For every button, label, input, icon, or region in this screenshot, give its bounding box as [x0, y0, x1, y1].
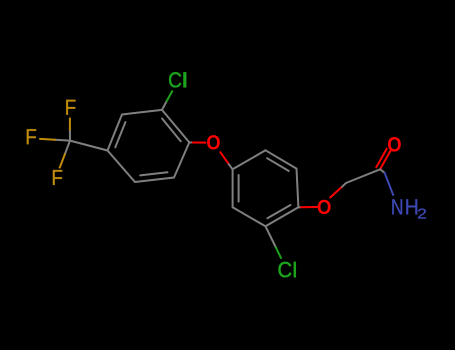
bond C-O ether1 gray half [189, 141, 192, 143]
bond O ether2 to CH2 red half [330, 187, 342, 198]
bond O ether1 to ring2 red half [220, 152, 229, 164]
double bond inner line X6-X1 [238, 175, 240, 202]
label O (ether 1) [207, 135, 220, 149]
label F (left fluorine) [27, 129, 36, 144]
bond C-O ether2 red half [301, 206, 317, 208]
label Cl (ring2 chlorine) [278, 262, 291, 277]
wire V4-V5 [108, 151, 136, 183]
bond ring1 to CF3 carbon [70, 141, 108, 151]
wire V6-V1 [122, 110, 162, 115]
bond C-O ether1 red half [193, 142, 206, 144]
carbonyl C=O double bond (red) [380, 151, 390, 170]
bond C-F top gray half [69, 130, 71, 141]
wire V3-V4 [135, 178, 174, 183]
label F (top fluorine) [66, 100, 75, 115]
bond C-F left gray half [55, 139, 70, 142]
label F (bottom fluorine) [53, 170, 62, 185]
wire V2-V3 [174, 142, 189, 177]
wire X4-X5 [266, 207, 299, 226]
bond C-F bottom gray half [65, 141, 70, 155]
double bond inner line V3-V4 [140, 172, 167, 175]
bond C-Cl (ring1 to Cl) gray half [162, 101, 167, 110]
wire X2-X3 [266, 150, 297, 168]
double bond inner line V5-V6 [115, 122, 125, 147]
wire V1-V2 [162, 110, 189, 142]
double bond inner line X2-X3 [267, 158, 289, 171]
double bond inner line X4-X5 [267, 205, 290, 218]
bond C-Cl (ring1 to Cl) green half [167, 91, 173, 101]
bond C-N amide blue half [385, 173, 394, 195]
label O (ether 2) [318, 200, 331, 214]
bond C-F top olive half [69, 118, 71, 129]
label NH2 (amide) [392, 199, 402, 214]
label O (carbonyl) [388, 137, 401, 152]
double bond inner line V1-V2 [162, 119, 181, 142]
bond C-N amide gray half [380, 169, 385, 173]
wire X6-X1 [232, 169, 234, 207]
label Cl (ring1 chlorine) [169, 72, 181, 87]
benzene ring 1 (left, 2-chloro-4-trifluoromethylphenyl) [108, 110, 190, 182]
bond C-Cl (ring2 to Cl) green half [276, 248, 281, 259]
bond C-O ether2 gray half [298, 206, 301, 208]
wire X1-X2 [233, 150, 266, 169]
wire X3-X4 [297, 169, 299, 208]
benzene ring 2 (right, 2-chloro-5-oxy-phenoxy) [233, 150, 299, 226]
wire X5-X6 [233, 207, 266, 226]
bond C-F bottom olive half [60, 154, 65, 168]
bond O ether2 to CH2 gray half [342, 183, 346, 187]
bond C-Cl (ring2 to Cl) gray half [266, 226, 276, 247]
bond CH2 to carbonyl C [346, 169, 380, 183]
wire V5-V6 [108, 115, 123, 151]
bond O ether1 to ring2 gray half [229, 164, 233, 169]
bond C-F left olive half [40, 138, 55, 141]
